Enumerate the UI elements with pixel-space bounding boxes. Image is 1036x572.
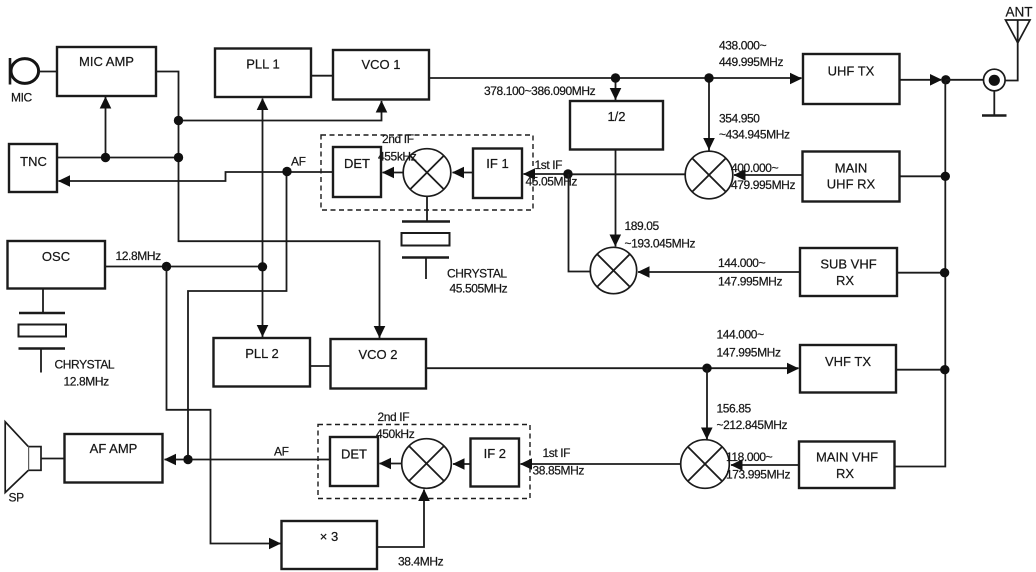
block PLL 2	[214, 338, 311, 387]
arrowhead toward antenna node	[930, 74, 942, 86]
svg-text:2nd IF: 2nd IF	[378, 410, 410, 424]
svg-text:VCO 2: VCO 2	[358, 347, 397, 362]
wire PLL reference vertical	[262, 99, 264, 338]
block VCO 2	[331, 339, 427, 389]
svg-text:400.000~: 400.000~	[731, 161, 779, 175]
junction dot AF node	[282, 167, 291, 176]
svg-text:MIC AMP: MIC AMP	[79, 54, 134, 69]
wire VCO 1 output to UHF TX	[429, 77, 802, 79]
wire mixer M5 to DET lower	[380, 463, 402, 465]
arrowhead into 1/2 top	[610, 88, 622, 100]
microphone symbol MIC	[10, 58, 39, 85]
mixer M5	[402, 439, 452, 489]
block IF 1	[473, 149, 522, 199]
svg-text:1/2: 1/2	[607, 109, 625, 124]
junction dot modulation branch	[174, 116, 183, 125]
wire MAIN UHF RX to mixer M2	[734, 174, 803, 176]
crystal symbol 45.505MHz below mixer M1	[402, 196, 451, 279]
arrowhead into IF 1 right	[523, 168, 535, 180]
svg-text:479.995MHz: 479.995MHz	[731, 178, 795, 192]
svg-text:38.4MHz: 38.4MHz	[398, 555, 444, 569]
wire branch down into divider 1/2	[615, 78, 617, 101]
svg-text:UHF TX: UHF TX	[828, 64, 875, 79]
arrowhead into mixer M4 right	[731, 459, 743, 471]
block SUB VHF RX	[800, 248, 897, 296]
wire mixer M2 output 1st IF	[568, 173, 685, 175]
arrowhead into mixer M3 right	[638, 266, 650, 278]
arrowhead into VCO 1 bottom	[376, 101, 388, 113]
antenna bus vertical	[894, 80, 945, 467]
svg-text:45.505MHz: 45.505MHz	[450, 282, 508, 296]
wire OSC branch down to x3	[167, 267, 281, 544]
arrowhead into mixer M2 top	[703, 138, 715, 150]
svg-text:IF 1: IF 1	[486, 156, 508, 171]
arrowhead into DET upper	[382, 167, 394, 179]
svg-text:38.85MHz: 38.85MHz	[533, 464, 585, 478]
ground symbol below connector	[982, 91, 1007, 116]
svg-text:TNC: TNC	[20, 154, 47, 169]
block UHF TX	[803, 54, 900, 104]
junction dot AF lower node	[183, 455, 192, 464]
wire antenna node to connector	[946, 79, 984, 81]
svg-text:VHF TX: VHF TX	[825, 354, 871, 369]
svg-text:IF 2: IF 2	[484, 446, 506, 461]
wire SUB VHF RX to bus	[897, 272, 945, 274]
wire IF 2 to mixer M5	[453, 463, 471, 465]
junction dot antenna node	[941, 75, 950, 84]
svg-text:189.05: 189.05	[625, 219, 660, 233]
mixer M4	[681, 440, 730, 489]
junction dot OSC branch	[162, 262, 171, 271]
block IF 2	[471, 439, 520, 487]
svg-text:1st IF: 1st IF	[543, 446, 571, 460]
svg-text:438.000~: 438.000~	[719, 39, 767, 53]
wire MIC to MIC AMP	[39, 71, 58, 73]
svg-text:SP: SP	[9, 491, 25, 505]
junction dot VHF branch	[702, 364, 711, 373]
svg-text:MAIN: MAIN	[835, 161, 868, 176]
arrowhead into PLL 2 top	[257, 325, 269, 337]
wire PLL 2 to VCO 2	[310, 365, 331, 367]
svg-text:× 3: × 3	[320, 529, 338, 544]
svg-text:CHRYSTAL: CHRYSTAL	[55, 358, 115, 372]
wire branch up into MIC AMP	[105, 97, 107, 158]
junction dot at 1/2 branch	[611, 73, 620, 82]
junction dot on bus at MAIN UHF RX	[941, 172, 950, 181]
arrowhead into mixer M5 bottom	[418, 489, 430, 501]
arrowhead into DET lower right	[379, 458, 391, 470]
wire TNC node line	[57, 157, 179, 159]
mixer M1	[403, 149, 451, 197]
block OSC	[8, 241, 106, 289]
arrowhead into mixer M2 right	[734, 169, 746, 181]
wire mixer M4 output to IF 2	[521, 463, 682, 465]
svg-text:156.85: 156.85	[717, 402, 752, 416]
junction dot at M2 branch	[704, 73, 713, 82]
wire SUB VHF RX to mixer M3	[638, 271, 800, 273]
block VCO 1	[333, 50, 429, 100]
svg-text:118.000~: 118.000~	[726, 450, 773, 464]
svg-text:AF AMP: AF AMP	[90, 441, 138, 456]
junction dot 1st IF node	[563, 169, 572, 178]
svg-text:AF: AF	[291, 155, 306, 169]
wire antenna down lead	[1006, 42, 1018, 81]
antenna connector circle	[984, 69, 1006, 91]
wire mixer M3 output up to 1st IF node	[569, 174, 591, 272]
wire AF net to DET 1	[287, 171, 333, 173]
svg-text:2nd IF: 2nd IF	[382, 132, 414, 146]
junction dot OSC to PLL line	[258, 262, 267, 271]
wire IF 1 to mixer M1	[453, 172, 474, 174]
wire PLL 1 to VCO 1	[311, 75, 333, 77]
junction dot on bus at VHF TX	[940, 365, 949, 374]
svg-text:AF: AF	[274, 445, 289, 459]
svg-text:DET: DET	[344, 156, 370, 171]
svg-text:ANT: ANT	[1006, 5, 1033, 20]
arrowhead into mixer M4 top	[701, 428, 713, 440]
svg-text:DET: DET	[341, 447, 367, 462]
antenna symbol ANT	[1006, 20, 1031, 43]
wire branch down into mixer M4	[706, 368, 708, 439]
wire AF net vertical down	[188, 172, 287, 460]
junction dot on TNC line right	[174, 153, 183, 162]
dashed box 2nd IF lower	[318, 425, 530, 499]
svg-text:12.8MHz: 12.8MHz	[64, 375, 110, 389]
svg-text:449.995MHz: 449.995MHz	[719, 55, 783, 69]
svg-text:RX: RX	[836, 273, 854, 288]
svg-text:450kHz: 450kHz	[376, 427, 415, 441]
svg-text:147.995MHz: 147.995MHz	[717, 346, 781, 360]
svg-text:~193.045MHz: ~193.045MHz	[625, 237, 696, 251]
svg-text:PLL 1: PLL 1	[246, 57, 280, 72]
svg-text:CHRYSTAL: CHRYSTAL	[447, 267, 507, 281]
block TNC	[9, 144, 57, 192]
svg-text:12.8MHz: 12.8MHz	[116, 249, 162, 263]
wire speaker to AF AMP	[41, 458, 65, 460]
svg-text:UHF RX: UHF RX	[827, 177, 876, 192]
wire MAIN UHF RX to bus	[900, 175, 946, 177]
svg-text:455kHz: 455kHz	[378, 150, 417, 164]
arrowhead into IF 2 right	[520, 458, 532, 470]
junction dot on bus at SUB VHF RX	[940, 268, 949, 277]
wire OSC output	[105, 266, 263, 268]
wire UHF TX output to antenna node	[900, 79, 942, 81]
block DET upper	[333, 147, 381, 197]
svg-text:~434.945MHz: ~434.945MHz	[719, 128, 790, 142]
mixer M2	[685, 151, 733, 199]
svg-text:~212.845MHz: ~212.845MHz	[717, 418, 788, 432]
svg-text:144.000~: 144.000~	[718, 256, 766, 270]
arrowhead into AF AMP right	[164, 454, 176, 466]
svg-text:RX: RX	[836, 466, 854, 481]
block AF AMP	[65, 434, 163, 483]
arrowhead into UHF TX left	[790, 73, 802, 85]
svg-text:VCO 1: VCO 1	[361, 57, 400, 72]
block VHF TX	[800, 345, 896, 393]
arrowhead into mixer M1 right	[452, 167, 464, 179]
svg-text:378.100~386.090MHz: 378.100~386.090MHz	[484, 84, 596, 98]
wire 1st IF line into IF 1	[524, 173, 569, 175]
wire 1/2 output down to mixer M3	[615, 150, 617, 247]
crystal symbol below OSC	[19, 289, 67, 373]
block MIC AMP	[57, 47, 156, 96]
junction dot on TNC line	[101, 153, 110, 162]
svg-text:144.000~: 144.000~	[717, 328, 765, 342]
block x3 multiplier	[282, 521, 378, 569]
arrowhead into VHF TX left	[787, 363, 799, 375]
svg-text:1st IF: 1st IF	[535, 158, 563, 172]
wire VHF TX to bus	[896, 369, 945, 371]
svg-text:SUB VHF: SUB VHF	[820, 257, 876, 272]
arrowhead into mixer M5 right	[453, 458, 465, 470]
wire VCO 2 output to VHF TX	[426, 367, 799, 369]
dashed box 2nd IF upper	[321, 135, 533, 210]
wire AF net to TNC	[59, 172, 288, 181]
svg-text:MIC: MIC	[11, 91, 33, 105]
block divider 1/2	[570, 101, 663, 150]
svg-text:354.950: 354.950	[719, 112, 760, 126]
speaker symbol SP	[5, 422, 41, 493]
wire MIC AMP output down	[156, 72, 380, 339]
block DET lower	[330, 437, 378, 486]
wire x3 output up into mixer M5	[377, 490, 424, 548]
svg-text:173.995MHz: 173.995MHz	[726, 468, 790, 482]
arrowhead into MIC AMP bottom	[100, 97, 112, 109]
wire modulation branch to VCO 1	[179, 101, 382, 121]
mixer M3	[590, 247, 636, 293]
block MAIN VHF RX	[799, 442, 895, 489]
svg-text:OSC: OSC	[42, 249, 70, 264]
wire branch down into mixer M2	[708, 78, 710, 151]
wire MAIN VHF RX to mixer M4	[731, 464, 799, 466]
arrowhead into mixer M3 top	[610, 235, 622, 247]
svg-text:PLL 2: PLL 2	[245, 346, 279, 361]
wire mixer M1 to DET	[383, 172, 404, 174]
block MAIN UHF RX	[803, 152, 900, 202]
arrowhead into PLL 1 bottom	[257, 98, 269, 110]
arrowhead into VCO 2 top	[374, 326, 386, 338]
svg-text:MAIN VHF: MAIN VHF	[816, 450, 878, 465]
block PLL 1	[215, 49, 311, 98]
wire AF line into AF AMP	[165, 459, 331, 461]
arrowhead into TNC right	[58, 175, 70, 187]
svg-text:147.995MHz: 147.995MHz	[718, 275, 782, 289]
arrowhead into x3 left	[269, 538, 281, 550]
